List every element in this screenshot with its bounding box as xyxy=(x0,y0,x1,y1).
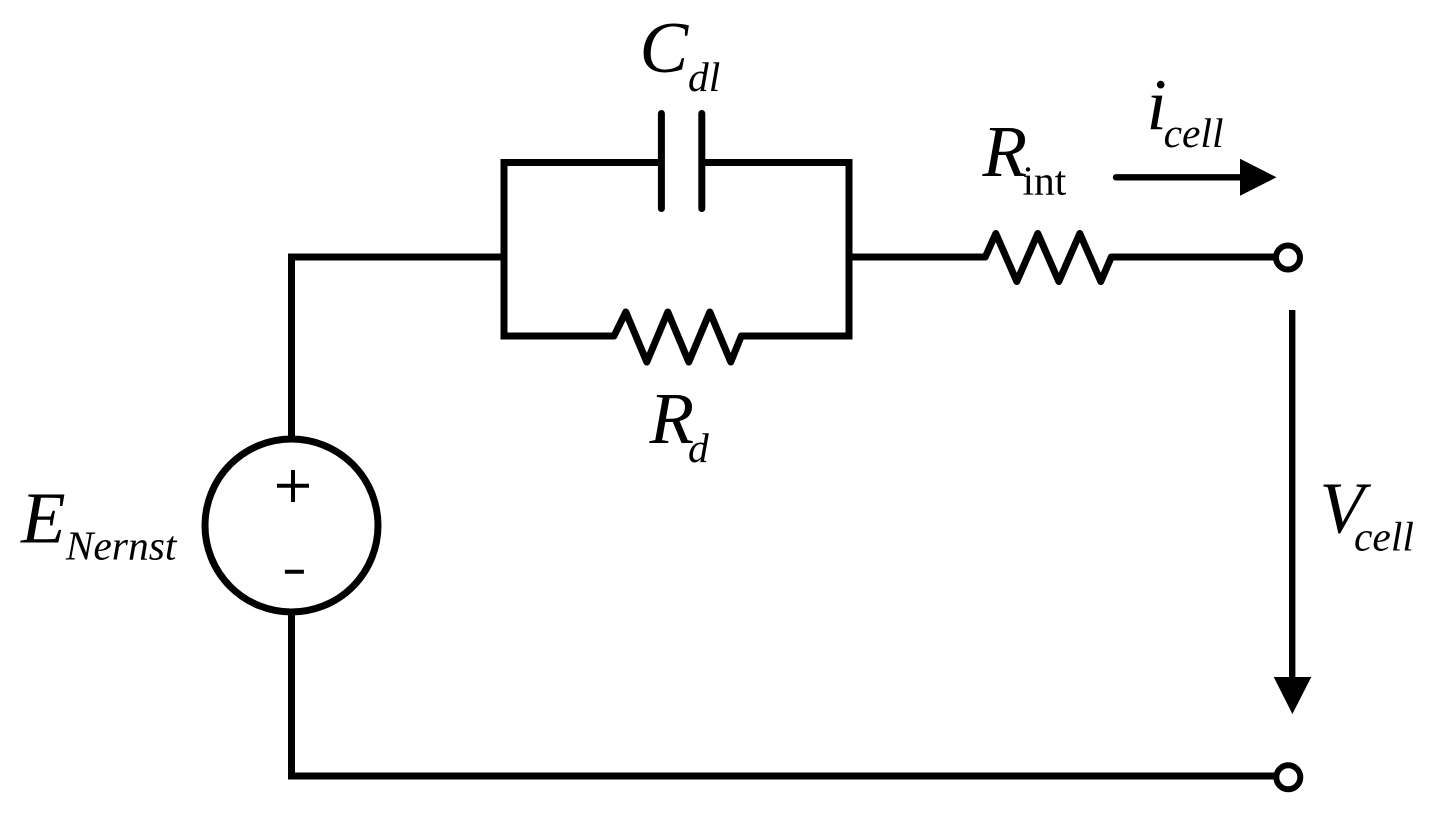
voltage arrow V_cell head xyxy=(1274,677,1312,714)
wire: bottom rail to bottom terminal xyxy=(288,773,1274,780)
resistor R_d with bottom wires xyxy=(501,312,853,362)
voltage arrow V_cell shaft xyxy=(1289,310,1295,680)
bottom output terminal xyxy=(1276,765,1300,789)
wire: block top-left to capacitor left plate xyxy=(501,159,660,166)
capacitor C_dl right plate xyxy=(698,114,705,209)
wire: block left vertical xyxy=(501,159,508,340)
svg-text:cell: cell xyxy=(1354,514,1414,560)
top output terminal xyxy=(1276,246,1300,270)
wire: capacitor right plate to block top-right xyxy=(705,159,853,166)
svg-text:Nernst: Nernst xyxy=(65,523,178,569)
wire: vertical from source bottom to bottom rail xyxy=(288,610,295,776)
resistor R_int with connecting wires xyxy=(846,234,1275,282)
current arrow i_cell head xyxy=(1240,159,1277,196)
wire: vertical from mid-left wire down to source top xyxy=(288,254,295,441)
svg-text:cell: cell xyxy=(1164,110,1224,156)
svg-text:R: R xyxy=(982,111,1028,192)
svg-text:int: int xyxy=(1023,158,1067,204)
wire: block right vertical xyxy=(846,159,853,340)
svg-text:E: E xyxy=(20,478,66,559)
svg-text:dl: dl xyxy=(688,54,720,100)
minus sign of source xyxy=(285,570,304,574)
capacitor C_dl left plate xyxy=(658,114,665,209)
svg-text:C: C xyxy=(640,7,690,88)
current arrow i_cell shaft xyxy=(1116,174,1246,180)
wire: mid-left horizontal from source top to block xyxy=(291,254,504,261)
voltage source E_Nernst circle xyxy=(205,439,378,612)
plus sign of source xyxy=(277,484,309,488)
svg-text:d: d xyxy=(688,425,709,471)
